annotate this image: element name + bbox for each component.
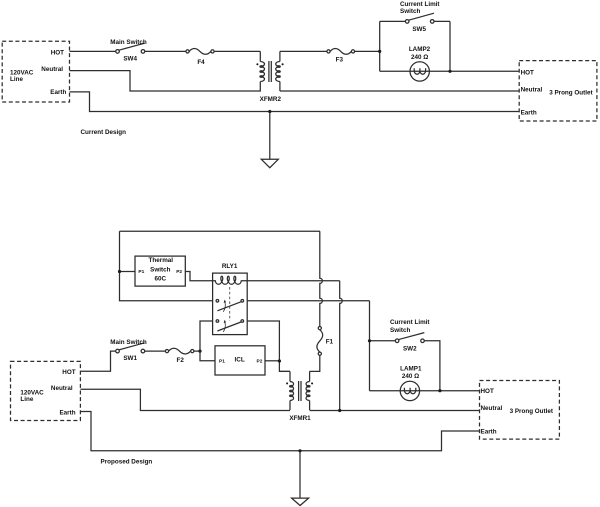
svg-text:Switch: Switch <box>150 266 170 273</box>
svg-text:Current Limit: Current Limit <box>400 1 440 8</box>
svg-text:3 Prong Outlet: 3 Prong Outlet <box>510 408 554 415</box>
svg-text:3 Prong Outlet: 3 Prong Outlet <box>549 89 593 96</box>
svg-text:Earth: Earth <box>50 89 66 96</box>
svg-text:Earth: Earth <box>59 409 75 416</box>
svg-text:F2: F2 <box>177 357 185 364</box>
svg-text:HOT: HOT <box>521 69 534 76</box>
svg-text:60C: 60C <box>155 276 167 283</box>
svg-text:Current Limit: Current Limit <box>390 319 430 326</box>
svg-text:Current Design: Current Design <box>81 129 127 136</box>
svg-text:Main Switch: Main Switch <box>110 339 147 346</box>
svg-text:SW5: SW5 <box>412 26 426 33</box>
svg-text:Thermal: Thermal <box>149 257 174 264</box>
svg-text:Earth: Earth <box>481 428 497 435</box>
svg-text:LAMP2: LAMP2 <box>409 46 431 53</box>
svg-text:Line: Line <box>10 76 23 83</box>
svg-text:P2: P2 <box>176 269 182 275</box>
svg-text:Line: Line <box>20 396 33 403</box>
svg-text:XFMR1: XFMR1 <box>289 415 311 422</box>
svg-text:RLY1: RLY1 <box>222 263 238 270</box>
svg-text:Switch: Switch <box>400 8 420 15</box>
svg-text:Neutral: Neutral <box>481 405 503 412</box>
svg-text:XFMR2: XFMR2 <box>260 96 282 103</box>
svg-text:LAMP1: LAMP1 <box>400 366 422 373</box>
svg-text:Neutral: Neutral <box>41 66 63 73</box>
svg-text:240 Ω: 240 Ω <box>402 373 419 380</box>
svg-text:HOT: HOT <box>51 49 64 56</box>
svg-text:Main Switch: Main Switch <box>110 39 147 46</box>
svg-text:Earth: Earth <box>521 110 537 117</box>
svg-text:ICL: ICL <box>235 357 245 364</box>
svg-text:F3: F3 <box>336 56 344 63</box>
svg-text:P2: P2 <box>257 358 263 364</box>
svg-text:P1: P1 <box>219 358 225 364</box>
svg-text:SW1: SW1 <box>123 355 137 362</box>
svg-text:HOT: HOT <box>481 388 494 395</box>
svg-text:HOT: HOT <box>62 369 75 376</box>
svg-text:SW2: SW2 <box>403 345 417 352</box>
svg-text:Neutral: Neutral <box>521 87 543 94</box>
svg-text:Proposed Design: Proposed Design <box>101 458 153 465</box>
svg-text:P1: P1 <box>138 269 144 275</box>
svg-text:Switch: Switch <box>390 327 410 334</box>
svg-text:SW4: SW4 <box>123 55 137 62</box>
svg-text:F1: F1 <box>326 339 334 346</box>
svg-text:Neutral: Neutral <box>51 385 73 392</box>
svg-text:F4: F4 <box>197 59 205 66</box>
svg-text:240 Ω: 240 Ω <box>411 54 428 61</box>
